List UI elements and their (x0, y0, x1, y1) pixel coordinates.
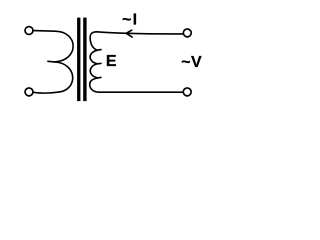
secondary cusp tail 2 (97, 62, 101, 64)
svg-text:E: E (106, 53, 117, 70)
secondary cusp tail 1 (97, 49, 101, 52)
core bar right (83, 18, 86, 102)
wire secondary top (97, 32, 183, 34)
core bar left (77, 18, 80, 102)
wire primary bottom lead (34, 91, 58, 94)
secondary cusp tail 3 (98, 76, 102, 79)
terminal P1 (top-left) (25, 27, 33, 35)
wire primary top lead (34, 30, 55, 33)
inductor L2 secondary winding (90, 32, 99, 92)
primary cusp tail (48, 60, 54, 63)
terminal S2 (bottom-right) (183, 88, 191, 96)
wire secondary bottom (99, 91, 183, 93)
inductor L1 primary winding (54, 31, 73, 92)
arrowhead current direction (126, 30, 132, 37)
svg-text:~I: ~I (122, 12, 137, 29)
terminal P2 (bottom-left) (25, 88, 33, 96)
terminal S1 (top-right) (183, 29, 191, 37)
svg-text:~V: ~V (181, 54, 202, 71)
